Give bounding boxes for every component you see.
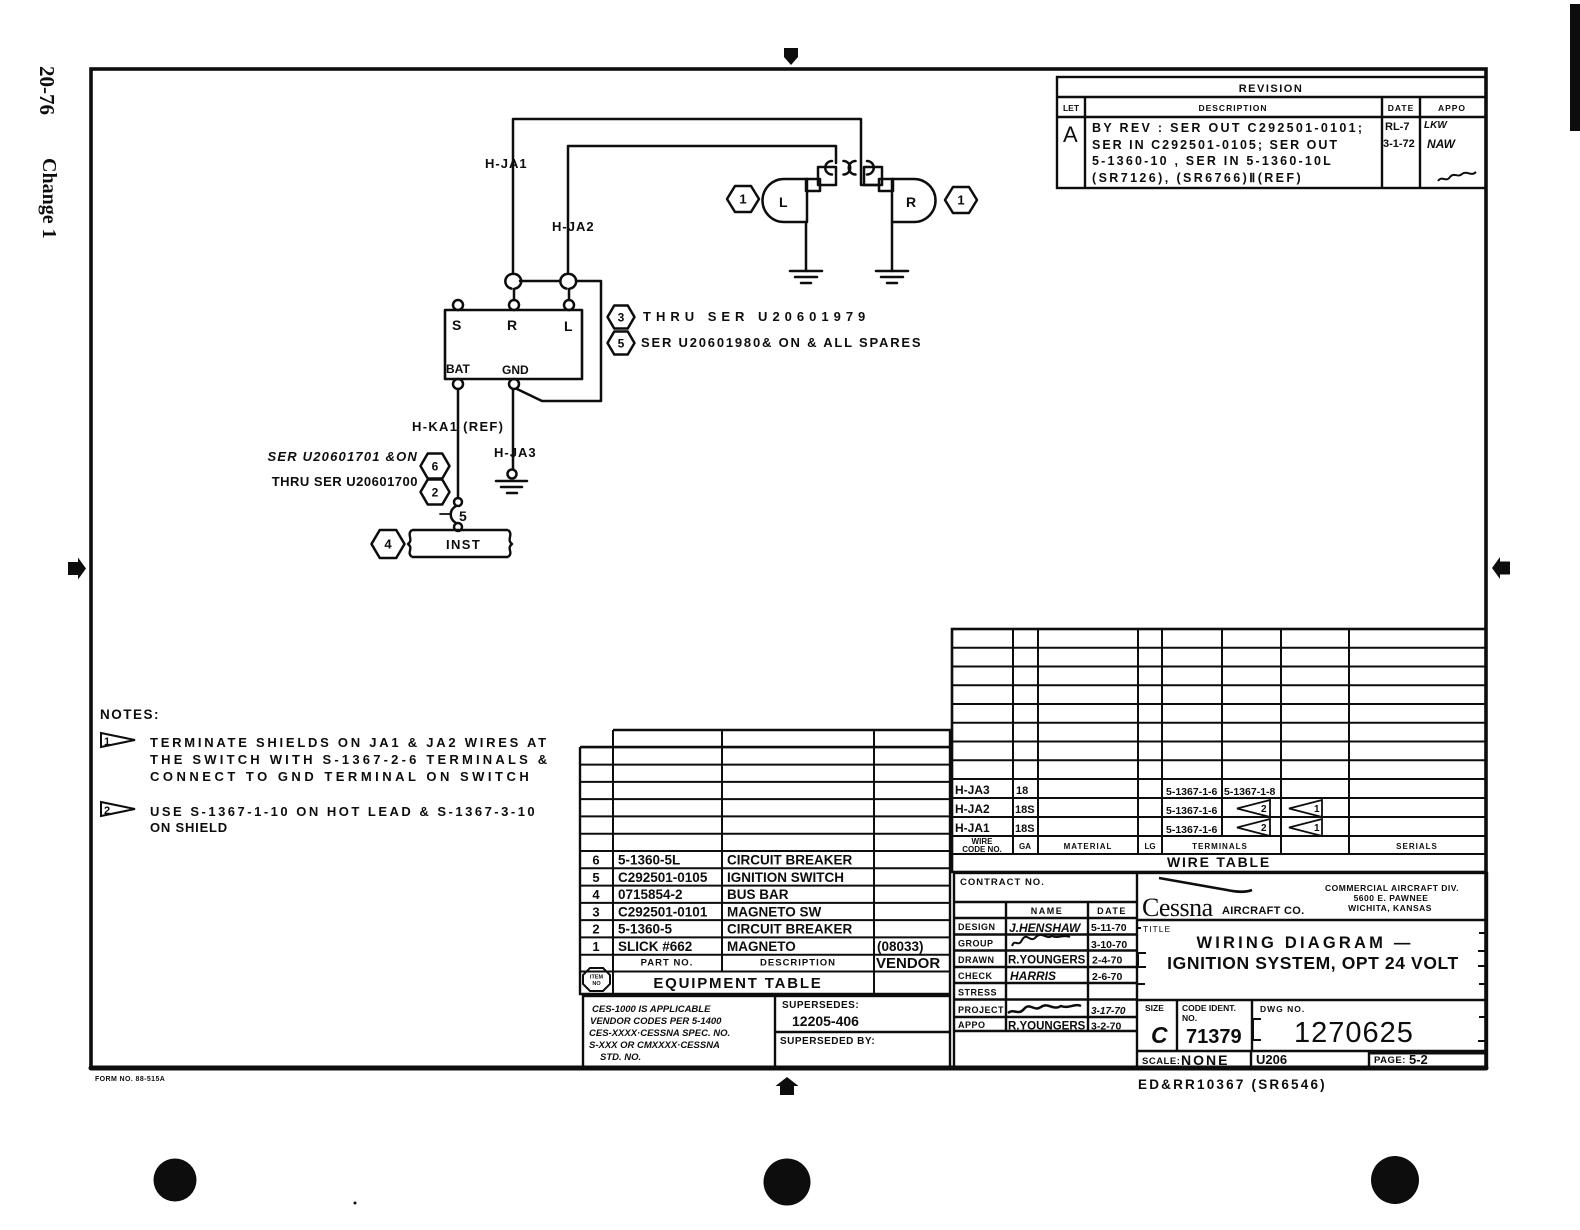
item callout 5 (ignition switch, new) [608,332,635,355]
ground symbol (R magneto) [876,271,908,283]
svg-text:1: 1 [592,939,599,954]
svg-text:RL-7: RL-7 [1385,121,1409,133]
svg-text:ITEM: ITEM [590,975,604,981]
svg-text:NAME: NAME [1031,906,1064,916]
svg-text:DWG NO.: DWG NO. [1260,1004,1305,1014]
svg-text:WIRING DIAGRAM —: WIRING DIAGRAM — [1196,934,1413,952]
svg-text:R.YOUNGERS: R.YOUNGERS [1008,955,1086,967]
scanner black bar top right [1570,4,1580,131]
svg-text:REVISION: REVISION [1239,83,1304,95]
svg-text:1270625: 1270625 [1294,1017,1414,1049]
switch terminal BAT [453,379,463,389]
svg-text:12205-406: 12205-406 [792,1013,859,1029]
svg-text:3-1-72: 3-1-72 [1383,138,1415,150]
svg-text:CODE IDENT.: CODE IDENT. [1182,1003,1236,1013]
svg-text:DESIGN: DESIGN [958,922,996,932]
wire H-JA1 (switch R terminal to R magneto) [513,119,878,300]
svg-text:PAGE:: PAGE: [1374,1055,1406,1066]
svg-text:VENDOR CODES PER 5-1400: VENDOR CODES PER 5-1400 [590,1016,722,1027]
svg-text:SER U20601701 &ON: SER U20601701 &ON [268,449,418,464]
svg-text:BAT: BAT [446,362,470,376]
svg-text:2: 2 [1261,804,1267,815]
svg-text:GND: GND [502,363,529,377]
svg-text:5-1367-1-6: 5-1367-1-6 [1166,805,1218,817]
svg-text:1: 1 [957,193,964,208]
svg-text:BY REV : SER OUT C292501-0101;: BY REV : SER OUT C292501-0101; [1092,121,1364,135]
svg-text:5-1360-10 , SER IN 5-1360-10L: 5-1360-10 , SER IN 5-1360-10L [1092,154,1333,168]
magneto L ground lead [805,222,808,271]
svg-text:2: 2 [432,485,439,499]
svg-text:R: R [906,194,916,210]
svg-text:VENDOR: VENDOR [876,955,940,972]
ignition switch S1 body [445,310,582,379]
magneto R body [892,179,936,222]
circuit breaker CB (5A) [440,498,462,531]
wire H-JA3 (GND terminal to ground) [512,389,515,469]
svg-text:J.HENSHAW: J.HENSHAW [1009,921,1082,935]
shield termination on H-JA1 [505,274,521,289]
svg-text:CIRCUIT BREAKER: CIRCUIT BREAKER [727,853,853,868]
svg-text:COMMERCIAL AIRCRAFT DIV.: COMMERCIAL AIRCRAFT DIV. [1325,883,1459,893]
svg-text:6: 6 [432,459,439,473]
title text [1143,924,1459,973]
svg-text:THRU SER U20601700: THRU SER U20601700 [272,474,418,489]
magneto R connector stub [864,167,893,191]
svg-text:C292501-0105: C292501-0105 [618,870,708,885]
svg-text:R: R [507,317,517,333]
drawing border frame [91,69,1486,1068]
svg-text:H-KA1 (REF): H-KA1 (REF) [412,419,504,434]
switch terminal GND [509,379,519,389]
svg-text:1: 1 [739,192,746,207]
svg-text:4: 4 [384,537,392,552]
svg-text:STD. NO.: STD. NO. [600,1052,641,1063]
item callout 3 (magneto switch, old) [608,306,635,329]
item callout 4 (bus bar) [372,530,405,558]
svg-text:SIZE: SIZE [1145,1003,1164,1013]
svg-text:DRAWN: DRAWN [958,955,995,965]
svg-text:CONNECT TO GND TERMINAL ON SWI: CONNECT TO GND TERMINAL ON SWITCH [150,769,532,784]
svg-text:CES-1000 IS APPLICABLE: CES-1000 IS APPLICABLE [592,1004,711,1015]
continuation tick marks [1138,928,1486,1041]
svg-text:LET: LET [1063,103,1080,113]
svg-text:L: L [564,318,573,334]
svg-text:TITLE: TITLE [1143,924,1171,934]
registration dot center [764,1159,811,1206]
svg-text:4: 4 [592,887,600,902]
item callout 2 (circuit breaker 5-1360-5) [421,480,450,505]
svg-text:2: 2 [1261,823,1267,834]
note flag 1 [101,733,135,747]
svg-text:R.YOUNGERS: R.YOUNGERS [1008,1021,1086,1033]
switch terminal R [509,300,519,310]
wire shield jumper to GND terminal [517,281,601,401]
vendor codes note box [583,996,950,1067]
svg-text:LKW: LKW [1424,120,1448,131]
svg-text:TERMINALS: TERMINALS [1192,842,1248,851]
svg-text:MATERIAL: MATERIAL [1064,842,1113,851]
svg-text:EQUIPMENT TABLE: EQUIPMENT TABLE [653,975,822,992]
svg-text:5-1367-1-6: 5-1367-1-6 [1166,786,1218,798]
svg-text:NO.: NO. [1182,1013,1197,1023]
magneto L body [762,179,807,222]
svg-text:APPO: APPO [1438,103,1466,113]
svg-text:5-1367-1-6: 5-1367-1-6 [1166,824,1218,836]
svg-text:C292501-0101: C292501-0101 [618,904,708,919]
size / code ident / dwg no [1138,1003,1428,1092]
svg-text:H-JA2: H-JA2 [955,802,990,816]
svg-text:WICHITA, KANSAS: WICHITA, KANSAS [1348,903,1432,913]
svg-text:S: S [452,317,461,333]
svg-text:1: 1 [104,736,110,748]
svg-text:Cessna: Cessna [1142,893,1214,922]
svg-text:SER IN C292501-0105; SER OUT: SER IN C292501-0105; SER OUT [1092,138,1339,152]
shield termination on H-JA2 [560,274,576,289]
svg-text:NO: NO [592,981,601,987]
note flag 2 references in wire table [1237,800,1322,836]
svg-text:2: 2 [592,922,599,937]
svg-text:0715854-2: 0715854-2 [618,887,683,902]
svg-text:MAGNETO SW: MAGNETO SW [727,904,822,919]
svg-text:CIRCUIT BREAKER: CIRCUIT BREAKER [727,922,853,937]
svg-text:THE SWITCH WITH S-1367-2-6 TER: THE SWITCH WITH S-1367-2-6 TERMINALS & [150,752,550,767]
svg-text:FORM NO. 88-515A: FORM NO. 88-515A [95,1076,165,1083]
svg-text:HARRIS: HARRIS [1010,969,1056,983]
project signature scribble [1008,1005,1081,1013]
svg-text:INST: INST [446,537,481,552]
svg-text:PART NO.: PART NO. [641,958,694,969]
svg-text:WIRE TABLE: WIRE TABLE [1167,854,1271,870]
svg-text:Change 1: Change 1 [38,158,60,239]
svg-text:A: A [1063,122,1078,147]
svg-text:5: 5 [618,336,625,350]
svg-text:5-2: 5-2 [1409,1052,1428,1067]
svg-text:2-6-70: 2-6-70 [1092,971,1123,983]
svg-text:SUPERSEDED BY:: SUPERSEDED BY: [780,1036,875,1047]
svg-text:S-XXX OR CMXXXX·CESSNA: S-XXX OR CMXXXX·CESSNA [589,1040,720,1051]
svg-text:6: 6 [592,853,599,868]
svg-text:C: C [1151,1022,1168,1048]
connector disconnect at R magneto [849,161,874,175]
svg-text:DESCRIPTION: DESCRIPTION [1198,103,1267,113]
svg-text:H-JA1: H-JA1 [955,821,990,835]
svg-text:3-17-70: 3-17-70 [1091,1006,1126,1017]
svg-text:H-JA1: H-JA1 [485,156,528,171]
item callout 6 (circuit breaker 5-1360-5L) [421,454,450,479]
svg-text:(SR7126), (SR6766)Ⅱ(REF): (SR7126), (SR6766)Ⅱ(REF) [1092,171,1303,185]
INST bus bar [408,530,512,557]
svg-text:3: 3 [592,904,599,919]
svg-text:ON SHIELD: ON SHIELD [150,820,228,835]
svg-text:3-10-70: 3-10-70 [1091,939,1127,951]
svg-text:5-1360-5L: 5-1360-5L [618,853,680,868]
svg-text:IGNITION SYSTEM, OPT 24 VOLT: IGNITION SYSTEM, OPT 24 VOLT [1167,953,1459,973]
svg-text:APPO: APPO [958,1020,986,1030]
svg-text:18S: 18S [1015,804,1035,816]
svg-text:5600 E. PAWNEE: 5600 E. PAWNEE [1354,893,1429,903]
svg-text:H-JA2: H-JA2 [552,219,595,234]
svg-text:GA: GA [1019,842,1031,851]
svg-text:AIRCRAFT CO.: AIRCRAFT CO. [1222,905,1304,917]
item callout 1 (L magneto) [727,186,759,212]
ground symbol (L magneto) [790,271,822,283]
item no octagon [583,968,610,991]
svg-text:LG: LG [1144,842,1155,851]
svg-text:DATE: DATE [1097,906,1127,916]
svg-text:MAGNETO: MAGNETO [727,939,796,954]
wire table [952,629,1486,872]
svg-text:DESCRIPTION: DESCRIPTION [760,958,836,969]
magneto R ground lead [891,222,894,271]
svg-text:20-76: 20-76 [35,66,59,115]
wire H-JA2 (switch L terminal to L magneto) [568,146,836,300]
svg-text:NOTES:: NOTES: [100,707,160,722]
svg-text:3-2-70: 3-2-70 [1091,1021,1122,1033]
registration arrow right [1492,557,1510,579]
svg-text:L: L [779,194,788,210]
svg-text:BUS BAR: BUS BAR [727,887,789,902]
svg-text:CHECK: CHECK [958,971,993,981]
svg-text:H-JA3: H-JA3 [955,783,990,797]
switch terminal L [564,300,574,310]
svg-text:18S: 18S [1015,823,1035,835]
svg-text:STRESS: STRESS [958,988,997,998]
svg-text:(08033): (08033) [877,939,924,954]
registration dot right [1371,1156,1419,1204]
registration arrow top [784,48,798,65]
svg-text:5-11-70: 5-11-70 [1091,922,1127,934]
svg-text:2: 2 [104,805,110,817]
connector disconnect at L magneto [825,161,850,175]
title block [954,873,1487,1068]
svg-text:THRU SER U20601979: THRU SER U20601979 [643,309,870,324]
svg-text:SER U20601980& ON & ALL SPARES: SER U20601980& ON & ALL SPARES [641,335,922,350]
svg-text:GROUP: GROUP [958,939,994,949]
svg-text:DATE: DATE [1388,103,1415,113]
equipment table [580,730,950,994]
revision table [1057,77,1486,188]
svg-text:H-JA3: H-JA3 [494,445,537,460]
registration arrow left [68,558,86,580]
registration arrow bottom [776,1077,799,1095]
wire H-KA1 (BAT terminal down to breaker) [457,389,460,498]
svg-text:1: 1 [1314,823,1320,834]
magneto L connector stub [806,167,836,191]
svg-text:PROJECT: PROJECT [958,1005,1004,1015]
registration dot left [154,1159,197,1202]
svg-text:SERIALS: SERIALS [1396,842,1438,851]
svg-text:SCALE:: SCALE: [1142,1056,1180,1067]
svg-text:U206: U206 [1256,1052,1287,1067]
svg-text:5: 5 [592,870,599,885]
svg-text:5: 5 [459,508,467,524]
svg-text:5-1367-1-8: 5-1367-1-8 [1224,786,1276,798]
svg-text:CODE NO.: CODE NO. [962,845,1002,854]
svg-text:71379: 71379 [1186,1026,1242,1048]
approval signature scribble [1438,172,1476,181]
item callout 1 (R magneto) [945,187,977,213]
svg-text:CONTRACT NO.: CONTRACT NO. [960,877,1045,888]
svg-text:18: 18 [1016,785,1028,797]
svg-text:ED&RR10367 (SR6546): ED&RR10367 (SR6546) [1138,1077,1327,1092]
svg-text:SLICK #662: SLICK #662 [618,939,692,954]
svg-text:USE S-1367-1-10 ON HOT LEAD &: USE S-1367-1-10 ON HOT LEAD & S-1367-3-1… [150,804,537,819]
svg-text:IGNITION SWITCH: IGNITION SWITCH [727,870,844,885]
svg-text:TERMINATE SHIELDS ON JA1 & JA2: TERMINATE SHIELDS ON JA1 & JA2 WIRES AT [150,735,549,750]
svg-text:1: 1 [1314,804,1320,815]
svg-text:CES-XXXX·CESSNA SPEC. NO.: CES-XXXX·CESSNA SPEC. NO. [589,1028,730,1039]
svg-text:SUPERSEDES:: SUPERSEDES: [782,1000,859,1011]
svg-text:5-1360-5: 5-1360-5 [618,922,673,937]
svg-text:NAW: NAW [1427,137,1457,151]
svg-text:3: 3 [618,310,625,324]
svg-text:NONE: NONE [1181,1052,1229,1068]
ground symbol (H-JA3) [508,470,517,479]
group signature scribble [1012,935,1070,946]
svg-text:2-4-70: 2-4-70 [1092,955,1123,967]
switch terminal S [453,300,463,310]
note flag 2 [101,802,135,816]
